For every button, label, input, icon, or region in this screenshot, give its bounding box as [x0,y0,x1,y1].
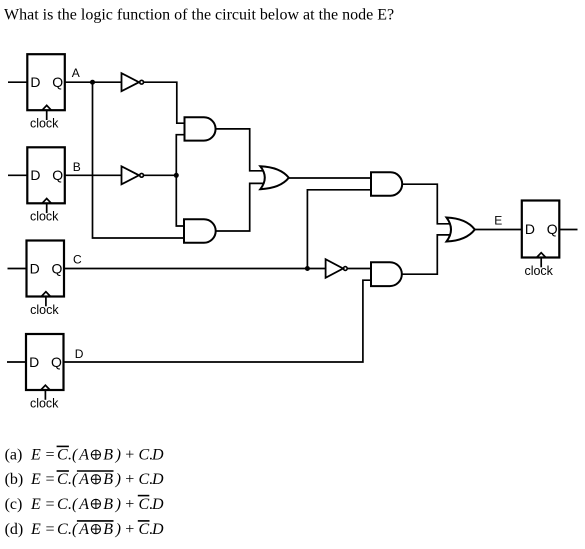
svg-text:B: B [73,160,81,174]
option (d) text [5,521,164,538]
NOT gate G7 [326,259,348,278]
svg-text:B: B [103,521,113,538]
svg-text:Q: Q [547,221,558,237]
svg-text:A: A [72,66,80,80]
wire FF3 D input [8,268,27,270]
svg-text:B: B [103,447,113,464]
AND gate G3 [185,117,216,140]
svg-text:clock: clock [524,264,553,278]
svg-text:=: = [45,471,56,488]
wire AND G6 out to OR G9 upper input [402,184,449,224]
wire AND G3 out to OR G5 upper input [216,129,263,171]
svg-text:D: D [151,471,164,488]
svg-text:D: D [29,354,39,370]
svg-text:.(: .( [68,471,79,488]
svg-text:Q: Q [52,260,63,276]
NOT gate G2 [122,166,144,184]
svg-text:+: + [124,496,135,513]
wire FF4 Q to AND G8 lower input [64,280,372,362]
svg-text:E: E [30,496,41,513]
wire NOT G2 out to junction [144,174,176,176]
svg-text:C: C [57,521,68,538]
svg-text:.(: .( [68,521,79,538]
wire FF1 D input [8,81,27,83]
OR gate G5 [260,166,289,189]
wire FF4 D input [7,361,26,363]
svg-text:): ) [115,521,121,538]
svg-text:C: C [57,471,68,488]
svg-text:B: B [103,471,113,488]
option (c) xor symbol [91,499,100,508]
svg-text:clock: clock [30,117,59,131]
svg-text:): ) [115,447,121,464]
svg-text:(b): (b) [5,471,24,488]
wire node C up to AND G6 lower input [307,190,371,269]
option (a) text [5,447,164,464]
svg-text:B: B [103,496,113,513]
OR gate G9 [447,218,475,242]
wire node A down to AND G4 lower input [93,82,185,238]
wire FF2 D input [8,174,27,176]
svg-text:C: C [139,496,150,513]
svg-text:A: A [78,521,89,538]
svg-text:C: C [57,447,68,464]
svg-text:E: E [30,521,41,538]
svg-text:C: C [139,471,150,488]
svg-text:E: E [30,447,41,464]
svg-text:D: D [30,167,40,183]
wire AND G4 out to OR G5 lower input [216,183,263,231]
wire junction up to AND G3 lower input [176,135,184,176]
wire NOT G1 out to AND G3 upper input [144,82,185,123]
option (d) overline on A xor B [77,520,114,522]
D flip-flop FF2 [27,147,65,223]
option (b) text [5,471,164,488]
svg-text:(c): (c) [5,496,23,513]
svg-text:E: E [494,214,502,228]
wire NOT G7 out to AND G8 upper input [348,268,372,270]
svg-text:C: C [139,447,150,464]
svg-text:C: C [57,496,68,513]
wire junction down to AND G4 upper input [176,175,184,226]
svg-text:C: C [139,521,150,538]
svg-text:D: D [151,496,164,513]
svg-text:D: D [30,260,40,276]
svg-text:D: D [151,521,164,538]
svg-text:Q: Q [52,74,63,90]
node E wire OR G9 out to FF5 D input [475,229,522,231]
option (d) xor symbol [91,525,100,534]
svg-text:+: + [124,471,135,488]
svg-text:.(: .( [68,447,79,464]
wire FF3 Q to NOT G7 [64,268,326,270]
svg-text:=: = [45,521,56,538]
svg-text:): ) [115,471,121,488]
NOT gate G1 [122,73,144,91]
option (b) xor symbol [91,475,100,484]
option (c) overline on second C [138,495,150,497]
option (a) overline on first C [57,445,69,447]
svg-text:A: A [78,447,89,464]
svg-text:D: D [525,221,535,237]
svg-text:=: = [45,447,56,464]
node A [72,66,95,85]
D flip-flop FF5 [522,201,560,278]
svg-text:clock: clock [30,210,59,224]
AND gate G6 [371,172,402,195]
wire FF5 Q output [559,229,577,231]
junction dot on NOT G2 output [174,173,179,178]
wire OR G5 out to AND G6 upper input [289,177,371,179]
svg-text:+: + [124,521,135,538]
option (b) overline on A xor B [77,470,114,472]
D flip-flop FF1 [27,54,65,130]
svg-text:A: A [78,496,89,513]
AND gate G8 [371,262,402,286]
node C [73,253,310,272]
svg-text:C: C [73,253,82,267]
svg-text:clock: clock [30,397,59,411]
svg-text:+: + [124,447,135,464]
svg-text:D: D [75,347,84,361]
option (b) overline on first C [57,470,69,472]
svg-text:clock: clock [30,303,59,317]
option (c) text [5,496,164,513]
svg-text:D: D [30,74,40,90]
D flip-flop FF4 [26,334,64,411]
svg-text:(a): (a) [5,447,23,464]
option (d) overline on second C [138,520,150,522]
svg-text:A: A [78,471,89,488]
svg-text:D: D [151,447,164,464]
svg-text:What is the logic function of: What is the logic function of the circui… [4,7,394,24]
svg-text:): ) [115,496,121,513]
D flip-flop FF3 [27,241,65,317]
svg-text:E: E [30,471,41,488]
svg-text:(d): (d) [5,521,24,538]
svg-text:Q: Q [52,167,63,183]
wire AND G8 out to OR G9 lower input [402,235,450,274]
svg-text:Q: Q [51,354,62,370]
svg-text:.(: .( [68,496,79,513]
wire FF1 Q to NOT G1 [65,81,122,83]
svg-text:=: = [45,496,56,513]
AND gate G4 [184,219,216,243]
wire FF2 Q to NOT G2 [65,174,122,176]
option (a) xor symbol [91,450,100,459]
